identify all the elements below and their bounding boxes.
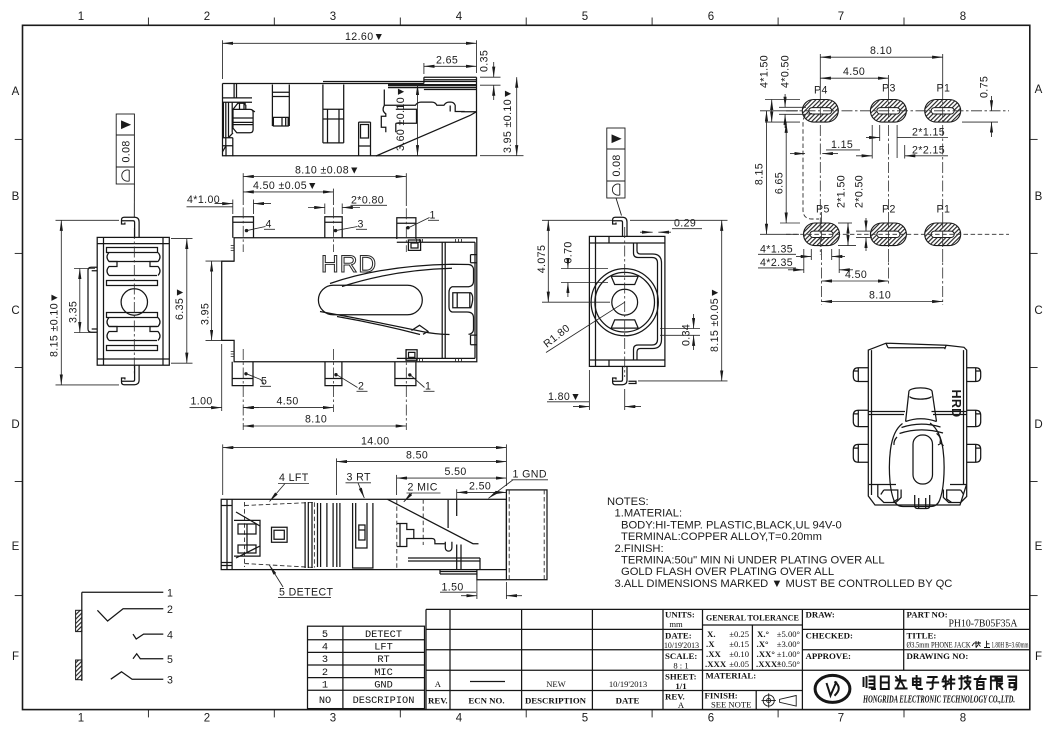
svg-text:PH10-7B05F35A: PH10-7B05F35A: [949, 618, 1018, 630]
right view body outline: [589, 236, 665, 366]
svg-text:6: 6: [708, 11, 714, 23]
top view terminal 2: [272, 85, 289, 127]
top view dim 3.95: [480, 77, 524, 156]
left view left spring bracket: [88, 267, 97, 332]
svg-text:±3.00°: ±3.00°: [777, 639, 801, 649]
finish symbol circle-cross: [762, 693, 776, 707]
svg-text:2: 2: [358, 381, 364, 393]
svg-text:2*2.15: 2*2.15: [912, 144, 945, 156]
dim 8.10 top: [820, 54, 942, 88]
svg-text:1.80H B=3.60mm: 1.80H B=3.60mm: [992, 640, 1029, 650]
right view inner walls: [589, 236, 665, 366]
pin edge extension ticks: [233, 200, 342, 215]
svg-text:C: C: [1034, 305, 1042, 317]
svg-text:8.50: 8.50: [406, 450, 428, 462]
svg-text:E: E: [12, 541, 20, 553]
zone ticks top: [148, 18, 904, 26]
svg-text:8.15 ±0.05▼: 8.15 ±0.05▼: [709, 287, 721, 352]
top view dim 3.60: [417, 85, 419, 156]
dim 0.70: [561, 265, 608, 297]
svg-text:LFT: LFT: [374, 642, 393, 654]
svg-text:±0.25: ±0.25: [729, 629, 749, 639]
svg-text:F: F: [1035, 651, 1042, 663]
svg-text:3.35: 3.35: [67, 301, 79, 323]
svg-text:±0.10: ±0.10: [729, 649, 749, 659]
svg-text:4*2.35: 4*2.35: [760, 257, 793, 269]
pad P4: [802, 100, 838, 123]
svg-text:HRD: HRD: [321, 251, 377, 278]
lower spring arc: [320, 312, 450, 335]
svg-text:1: 1: [430, 210, 436, 222]
svg-text:4*1.00: 4*1.00: [187, 194, 220, 206]
svg-text:NO: NO: [319, 695, 331, 707]
svg-text:12.60▼: 12.60▼: [345, 31, 384, 43]
svg-text:0.70: 0.70: [563, 241, 575, 263]
dim 8.50: [337, 458, 507, 495]
svg-text:CHECKED:: CHECKED:: [806, 631, 853, 641]
svg-text:1: 1: [167, 588, 173, 600]
svg-text:4*0.50: 4*0.50: [780, 55, 792, 88]
svg-text:X.: X.: [707, 629, 716, 639]
sleeve line: [81, 592, 83, 681]
dim 1.15: [790, 150, 860, 154]
svg-text:DESCRIPION: DESCRIPION: [353, 695, 415, 707]
svg-text:D: D: [11, 419, 19, 431]
front face vertical edges: [442, 242, 445, 358]
dim 0.75: [962, 96, 998, 137]
svg-text:2.65: 2.65: [436, 54, 458, 66]
bottom small rect detail: [406, 350, 417, 360]
top view lip lines: [323, 77, 477, 83]
svg-text:8.15: 8.15: [754, 163, 766, 185]
svg-text:2: 2: [167, 604, 173, 616]
dim 8.15 left: [760, 111, 799, 235]
top small rect detail: [408, 240, 420, 250]
svg-text:14.00: 14.00: [361, 436, 390, 448]
bottom view diagonal: [388, 499, 479, 543]
svg-text:1: 1: [78, 11, 84, 23]
dim 0.29: [640, 229, 702, 233]
front view body outline: [222, 238, 477, 362]
svg-text:6.35▼: 6.35▼: [174, 287, 186, 320]
title block column lines: [449, 609, 451, 709]
dim 14.00: [223, 444, 507, 495]
svg-text:GOLD FLASH OVER PLATING OVER A: GOLD FLASH OVER PLATING OVER ALL: [621, 566, 834, 578]
dim 8.15+-0.10: [56, 220, 120, 385]
svg-text:±0.05: ±0.05: [729, 659, 749, 669]
svg-text:3.60 ±0.10▼: 3.60 ±0.10▼: [395, 86, 407, 151]
svg-text:6: 6: [708, 713, 714, 725]
svg-text:DRAW:: DRAW:: [806, 610, 835, 620]
iso body edge lines: [868, 350, 966, 495]
top view terminal 1 beak: [233, 103, 246, 109]
svg-text:2: 2: [204, 713, 210, 725]
zone ticks left: [15, 139, 23, 595]
bottom view RT terminal: [353, 503, 373, 568]
right view center hole: [612, 289, 638, 315]
zone labels left: [11, 86, 19, 663]
svg-text:P1: P1: [937, 204, 951, 216]
centerline top row: [786, 110, 1009, 112]
svg-text:2*1.50: 2*1.50: [835, 175, 847, 208]
dim 2*0.50: [856, 218, 872, 251]
right view big circle outer: [591, 269, 658, 336]
svg-text:0.08: 0.08: [121, 140, 133, 162]
svg-text:0.08: 0.08: [611, 154, 623, 176]
svg-text:SEE NOTE: SEE NOTE: [711, 700, 751, 710]
bottom view right verticals: [448, 500, 461, 570]
svg-text:1.MATERIAL:: 1.MATERIAL:: [615, 508, 683, 520]
svg-text:1.00: 1.00: [191, 395, 213, 407]
svg-text:TERMINAL:COPPER ALLOY,T=0.20mm: TERMINAL:COPPER ALLOY,T=0.20mm: [621, 531, 822, 543]
svg-text:UNITS:: UNITS:: [665, 610, 695, 620]
svg-text:4*1.50: 4*1.50: [759, 55, 771, 88]
iso top notch: [886, 343, 946, 349]
spring contact tip: [412, 325, 429, 334]
left view bottom hook wire: [122, 365, 140, 385]
svg-text:MIC: MIC: [374, 667, 393, 679]
svg-text:7: 7: [838, 11, 844, 23]
svg-text:8 : 1: 8 : 1: [673, 660, 688, 670]
right view big circle inner rim: [595, 272, 655, 332]
leader 1 top: [410, 218, 430, 228]
pin 2 bottom: [325, 362, 342, 386]
iso bell right detail: [894, 433, 944, 445]
svg-text:C: C: [11, 305, 19, 317]
centerline bottom row: [786, 233, 1009, 235]
svg-text:B: B: [12, 191, 20, 203]
svg-text:P4: P4: [814, 85, 828, 97]
right view right terminal bracket: [634, 243, 658, 360]
contact 3: [111, 672, 164, 679]
front view inner top/bottom lines: [222, 242, 475, 358]
svg-text:6.65: 6.65: [773, 172, 785, 194]
svg-text:±5.00°: ±5.00°: [777, 629, 801, 639]
zone labels right: [1034, 84, 1042, 663]
iso bottom feet: [878, 485, 901, 503]
pin 4 top: [233, 217, 254, 238]
svg-text:5: 5: [582, 11, 588, 23]
dim 4.50 top: [820, 75, 888, 88]
iso center foot notch: [915, 495, 930, 509]
front view wall hatch ticks: [231, 246, 234, 357]
svg-text:4.50: 4.50: [843, 66, 865, 78]
dim 1.00: [190, 344, 260, 411]
svg-text:0.29: 0.29: [674, 218, 696, 230]
pad P1 top: [925, 100, 961, 123]
svg-text:2.50: 2.50: [469, 481, 491, 493]
iso left tab 3: [853, 444, 868, 462]
pad labels: [814, 83, 950, 216]
iso left tab 2: [853, 410, 868, 426]
top view dim 2.65: [424, 63, 477, 74]
svg-text:3 RT: 3 RT: [347, 472, 371, 484]
svg-text:2 MIC: 2 MIC: [408, 482, 438, 494]
top view body outline: [223, 77, 477, 156]
svg-text:4: 4: [266, 219, 272, 231]
svg-text:DRAWING NO:: DRAWING NO:: [907, 651, 969, 661]
left view top hook wire: [122, 217, 140, 237]
svg-text:2.FINISH:: 2.FINISH:: [615, 543, 664, 555]
iso left tab 1: [853, 368, 868, 382]
iso body outline: [868, 343, 966, 505]
svg-text:P5: P5: [816, 204, 830, 216]
dim 2.50: [457, 489, 507, 499]
finish cone symbol: [780, 696, 797, 707]
svg-text:D: D: [1034, 419, 1042, 431]
svg-text:NEW: NEW: [546, 679, 566, 689]
dim 2*1.15: [866, 125, 948, 158]
svg-text:±0.50°: ±0.50°: [777, 659, 801, 669]
svg-text:0.75: 0.75: [979, 76, 991, 98]
dim 3.35: [74, 269, 95, 333]
svg-text:.XX: .XX: [706, 649, 722, 659]
svg-text:4: 4: [456, 713, 463, 725]
svg-text:5: 5: [322, 629, 328, 641]
leader 4: [248, 227, 266, 231]
dim 6.65: [780, 122, 800, 223]
right view top wedge: [611, 276, 638, 284]
contact 4: [133, 634, 163, 639]
svg-text:3: 3: [330, 713, 336, 725]
svg-text:2: 2: [322, 667, 328, 679]
dim 8.10 bottom: [822, 301, 943, 303]
zone ticks right: [1030, 139, 1038, 595]
svg-text:TERMINA:50u" MIN Ni UNDER PLAT: TERMINA:50u" MIN Ni UNDER PLATING OVER A…: [621, 555, 885, 567]
svg-text:10/19'2013: 10/19'2013: [664, 640, 699, 650]
svg-text:A: A: [1035, 84, 1043, 96]
right view bottom wedge: [611, 320, 638, 328]
dim 4.50 bottom: [243, 407, 333, 409]
zone ticks bottom: [148, 710, 904, 718]
dim 4*1.35: [758, 249, 845, 260]
top view terminal 4: [359, 122, 371, 156]
svg-text:P2: P2: [882, 204, 896, 216]
pin 3 top: [325, 217, 342, 238]
svg-text:DATE:: DATE:: [665, 631, 692, 641]
svg-text:A: A: [678, 700, 685, 710]
svg-text:.XXX: .XXX: [705, 659, 727, 669]
svg-text:8.10: 8.10: [870, 45, 892, 57]
left view top terminal clip: [107, 248, 158, 253]
left view inner walls: [97, 237, 169, 365]
svg-text:DATE: DATE: [616, 696, 640, 706]
svg-text:MATERIAL:: MATERIAL:: [706, 671, 757, 681]
svg-text:DETECT: DETECT: [365, 629, 402, 641]
svg-text:.XX°: .XX°: [757, 649, 776, 659]
title block row lines: [426, 628, 1030, 630]
dim 2*1.50: [838, 223, 856, 246]
company chinese name: [864, 676, 1017, 690]
contact 1 line: [82, 591, 164, 593]
top view right assembly profile: [381, 90, 476, 133]
pin 5 bottom: [232, 362, 253, 386]
pad P3: [870, 100, 906, 123]
bottom view MIC terminal steps: [397, 524, 414, 547]
svg-text:NOTES:: NOTES:: [607, 496, 649, 508]
zone labels top: [78, 11, 966, 23]
svg-text:8.10 ±0.08▼: 8.10 ±0.08▼: [295, 164, 360, 176]
svg-text:1: 1: [322, 679, 328, 691]
dim 5.50: [397, 475, 507, 495]
dim 8.15+-0.05: [630, 220, 728, 381]
svg-text:HONGRIDA ELECTRONIC TECHNOLOGY: HONGRIDA ELECTRONIC TECHNOLOGY CO.,LTD.: [862, 695, 1015, 706]
left view body outline: [97, 237, 169, 365]
leader 1 bottom: [411, 376, 425, 388]
svg-text:±1.00°: ±1.00°: [777, 649, 801, 659]
fork right profile: [449, 265, 474, 335]
svg-text:SHEET:: SHEET:: [665, 672, 697, 682]
svg-text:2*0.50: 2*0.50: [854, 175, 866, 208]
svg-text:2: 2: [204, 11, 210, 23]
top view terminal 3: [323, 85, 344, 143]
svg-text:REV.: REV.: [428, 696, 448, 706]
dim 1.50: [440, 577, 522, 599]
svg-text:4.075: 4.075: [536, 245, 548, 274]
svg-text:1: 1: [78, 713, 84, 725]
dim 3.95 left: [206, 261, 222, 340]
iso right tab 2: [967, 410, 981, 426]
top view left wall details: [222, 84, 252, 146]
svg-text:8.10: 8.10: [869, 290, 891, 302]
svg-text:4: 4: [167, 630, 173, 642]
flag 0.08 left: [116, 114, 134, 217]
svg-text:3.ALL DIMENSIONS MARKED ▼ MUST: 3.ALL DIMENSIONS MARKED ▼ MUST BE CONTRO…: [615, 578, 953, 590]
svg-text:.X°: .X°: [757, 639, 770, 649]
svg-text:5 DETECT: 5 DETECT: [279, 586, 334, 598]
svg-text:8: 8: [960, 11, 966, 23]
svg-text:4 LFT: 4 LFT: [279, 472, 309, 484]
small title line: [907, 640, 1029, 650]
right view bottom hook wire: [613, 366, 636, 384]
svg-text:0.35: 0.35: [479, 50, 491, 72]
right view top hook wire: [613, 217, 627, 236]
contact 2: [97, 609, 163, 621]
svg-text:P1: P1: [937, 83, 951, 95]
svg-text:APPROVE:: APPROVE:: [806, 651, 852, 661]
bottom view dashed centerline vertical: [397, 499, 423, 569]
top view terminal 1 clip: [233, 109, 255, 132]
svg-text:RT: RT: [377, 654, 389, 666]
svg-text:ECN NO.: ECN NO.: [468, 696, 504, 706]
svg-text:4: 4: [322, 642, 328, 654]
svg-text:GND: GND: [374, 679, 393, 691]
contact 5: [133, 654, 163, 659]
svg-text:mm: mm: [669, 619, 683, 629]
bottom view LFT terminal: [234, 520, 260, 556]
pad P1 bottom: [925, 223, 961, 246]
svg-text:Ø3.5mm PHONE JACK: Ø3.5mm PHONE JACK: [907, 640, 972, 650]
svg-text:8: 8: [960, 713, 966, 725]
iso right tab 1: [967, 368, 981, 382]
leader 5: [248, 374, 261, 379]
dim 2*0.80: [308, 205, 387, 207]
dim 2*2.15: [856, 125, 948, 159]
dim 4*1.00: [187, 204, 272, 207]
center slot stadium: [318, 285, 422, 315]
svg-text:P3: P3: [882, 83, 896, 95]
svg-text:3.95 ±0.10▼: 3.95 ±0.10▼: [502, 88, 514, 153]
bottom view small rect detail: [272, 527, 288, 542]
svg-text:.X: .X: [706, 639, 715, 649]
bottom view inner left wall: [221, 499, 232, 569]
svg-text:PART NO:: PART NO:: [907, 610, 948, 620]
hanzi ban: [972, 641, 981, 648]
pad column centerlines: [820, 88, 942, 305]
svg-text:2*0.80: 2*0.80: [351, 194, 384, 206]
svg-text:8.15 ±0.10▼: 8.15 ±0.10▼: [49, 292, 61, 357]
bottom view barrel rings: [318, 503, 340, 567]
top view dim 12.60: [223, 40, 477, 79]
svg-text:E: E: [1035, 541, 1043, 553]
svg-text:3: 3: [358, 219, 364, 231]
svg-text:DESCRIPTION: DESCRIPTION: [525, 696, 587, 706]
hatched bar upper: [76, 610, 82, 631]
svg-text:0.34: 0.34: [681, 324, 693, 346]
bottom view J hook: [445, 542, 452, 551]
svg-text:B: B: [1035, 191, 1043, 203]
svg-text:7: 7: [838, 713, 844, 725]
iso bell slot: [913, 435, 933, 484]
company logo: [815, 675, 850, 702]
zone labels bottom: [78, 713, 966, 725]
bottom view dashed cavity outline: [245, 502, 315, 568]
pad P5: [804, 223, 840, 246]
dim 8.10+-0.08: [243, 173, 406, 206]
svg-text:BODY:HI-TEMP. PLASTIC,BLACK,UL: BODY:HI-TEMP. PLASTIC,BLACK,UL 94V-0: [621, 519, 842, 531]
svg-text:4.50: 4.50: [277, 395, 299, 407]
svg-text:5: 5: [582, 713, 588, 725]
pin numbers: [167, 588, 173, 687]
leader R1.80: [546, 302, 625, 352]
top view right shelf: [396, 109, 417, 132]
pin centerlines top: [243, 207, 406, 252]
svg-text:X.°: X.°: [757, 629, 770, 639]
iso bell outer: [889, 423, 944, 507]
svg-text:2*1.15: 2*1.15: [912, 127, 945, 139]
fork notch inner: [453, 293, 473, 308]
svg-text:±0.15: ±0.15: [729, 639, 749, 649]
iso collar: [900, 419, 944, 434]
dim 4*1.50: [765, 100, 800, 123]
svg-text:4: 4: [456, 11, 463, 23]
dim 6.35: [171, 239, 193, 364]
pin 1 top: [397, 218, 416, 239]
pad P2: [870, 223, 906, 246]
bottom view bottom step: [221, 566, 506, 580]
svg-text:5.50: 5.50: [445, 466, 467, 478]
svg-text:4*1.35: 4*1.35: [760, 243, 793, 255]
top view dim 0.35: [480, 62, 501, 100]
dim 1.80: [547, 370, 641, 410]
upper spring arc: [330, 264, 469, 283]
right view centerline: [624, 227, 626, 377]
svg-text:HRD: HRD: [949, 390, 963, 418]
svg-text:1/1: 1/1: [675, 681, 686, 691]
svg-text:A: A: [12, 86, 20, 98]
svg-text:3: 3: [330, 11, 336, 23]
dim 0.34: [660, 314, 700, 350]
dim 4.50 bottom: [822, 280, 889, 282]
left view bottom terminal clip: [107, 313, 158, 318]
svg-text:4.50 ±0.05▼: 4.50 ±0.05▼: [253, 180, 318, 192]
hatched bar lower: [76, 660, 82, 680]
leader 3: [337, 227, 358, 231]
svg-text:8.10: 8.10: [305, 414, 327, 426]
title block outer box: [426, 609, 1030, 709]
dim 4*0.50: [779, 94, 806, 128]
iso right tab 3: [967, 444, 981, 462]
